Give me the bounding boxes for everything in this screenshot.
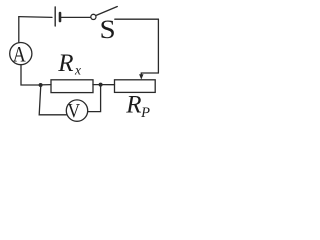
- label S (switch): [99, 14, 115, 43]
- wire ammeter bottom to bottom-left corner to left junction: [21, 65, 41, 85]
- rheostat slider arrowhead: [139, 74, 143, 79]
- rheostat RP box: [115, 80, 156, 93]
- ammeter A circle: [10, 43, 32, 65]
- wire left junction to Rx left edge: [41, 84, 51, 86]
- label A (ammeter): [13, 43, 26, 67]
- svg-text:A: A: [13, 43, 26, 67]
- wire Rx right edge to right junction: [93, 84, 101, 86]
- wire voltmeter branch left: junction down and right to V: [39, 85, 67, 115]
- node right junction dot: [99, 83, 103, 87]
- switch S pivot circle: [91, 14, 96, 19]
- switch S blade: [96, 7, 117, 16]
- wire jog to rheostat slider: [141, 73, 158, 75]
- label V (voltmeter): [68, 100, 81, 123]
- battery long plate (positive): [54, 7, 56, 26]
- battery short plate (negative): [59, 13, 62, 21]
- svg-text:S: S: [99, 14, 115, 43]
- voltmeter V circle: [66, 100, 87, 121]
- wire left vertical: corner down to ammeter: [18, 17, 20, 44]
- wire top-right: contact to corner: [115, 18, 159, 20]
- wire top-left horizontal: corner to battery: [19, 16, 52, 19]
- wire right vertical down: [157, 19, 159, 73]
- resistor Rx box: [51, 80, 93, 93]
- wire RP left edge to right junction: [101, 84, 115, 86]
- wire battery to switch: [61, 16, 90, 18]
- svg-text:V: V: [68, 100, 81, 123]
- node left junction dot: [39, 83, 43, 87]
- wire voltmeter branch right: V to right junction: [88, 85, 101, 112]
